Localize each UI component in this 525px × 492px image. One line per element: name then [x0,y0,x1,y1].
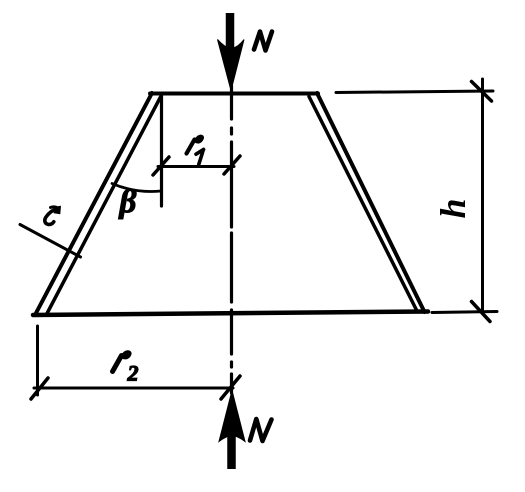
r2 dimension line [34,387,233,390]
leader line for t [20,225,81,258]
label N (bottom) [250,419,272,441]
bottom force arrow N head [219,391,245,442]
h top extension line [336,91,493,93]
r1 dimension line [158,165,234,168]
svg-text:2: 2 [127,361,139,386]
h dimension line [481,79,484,313]
r2 tick right [221,376,240,399]
left wall outer line [35,93,152,315]
svg-text:β: β [118,184,137,220]
right wall inner line [309,97,417,311]
label r2: r stroke [113,356,122,372]
right wall outer line [317,93,425,312]
h tick bottom [472,302,491,322]
top edge of frustum [150,92,318,96]
svg-text:h: h [433,198,473,218]
label N (top) [254,32,272,51]
top force arrow N shaft [226,13,235,52]
top force arrow N head [218,40,245,91]
h tick top [472,82,492,102]
h bottom extension line [432,312,497,313]
r1 extension line (vertical from inner top corner) [160,95,163,206]
bottom force arrow N shaft [227,434,236,469]
beta angle arc [112,184,161,192]
label r1: r stroke [187,140,195,154]
r1 tick right [224,156,240,174]
r2 extension line (left) [36,326,39,395]
r1 tick left [153,157,169,175]
r2 tick left [31,378,48,399]
centerline (axis, dash-dot) [230,86,233,393]
label t (wall thickness) [45,210,56,225]
left wall inner line [47,97,161,314]
label r1: subscript 1 [196,149,204,164]
bottom edge of frustum [33,312,428,316]
